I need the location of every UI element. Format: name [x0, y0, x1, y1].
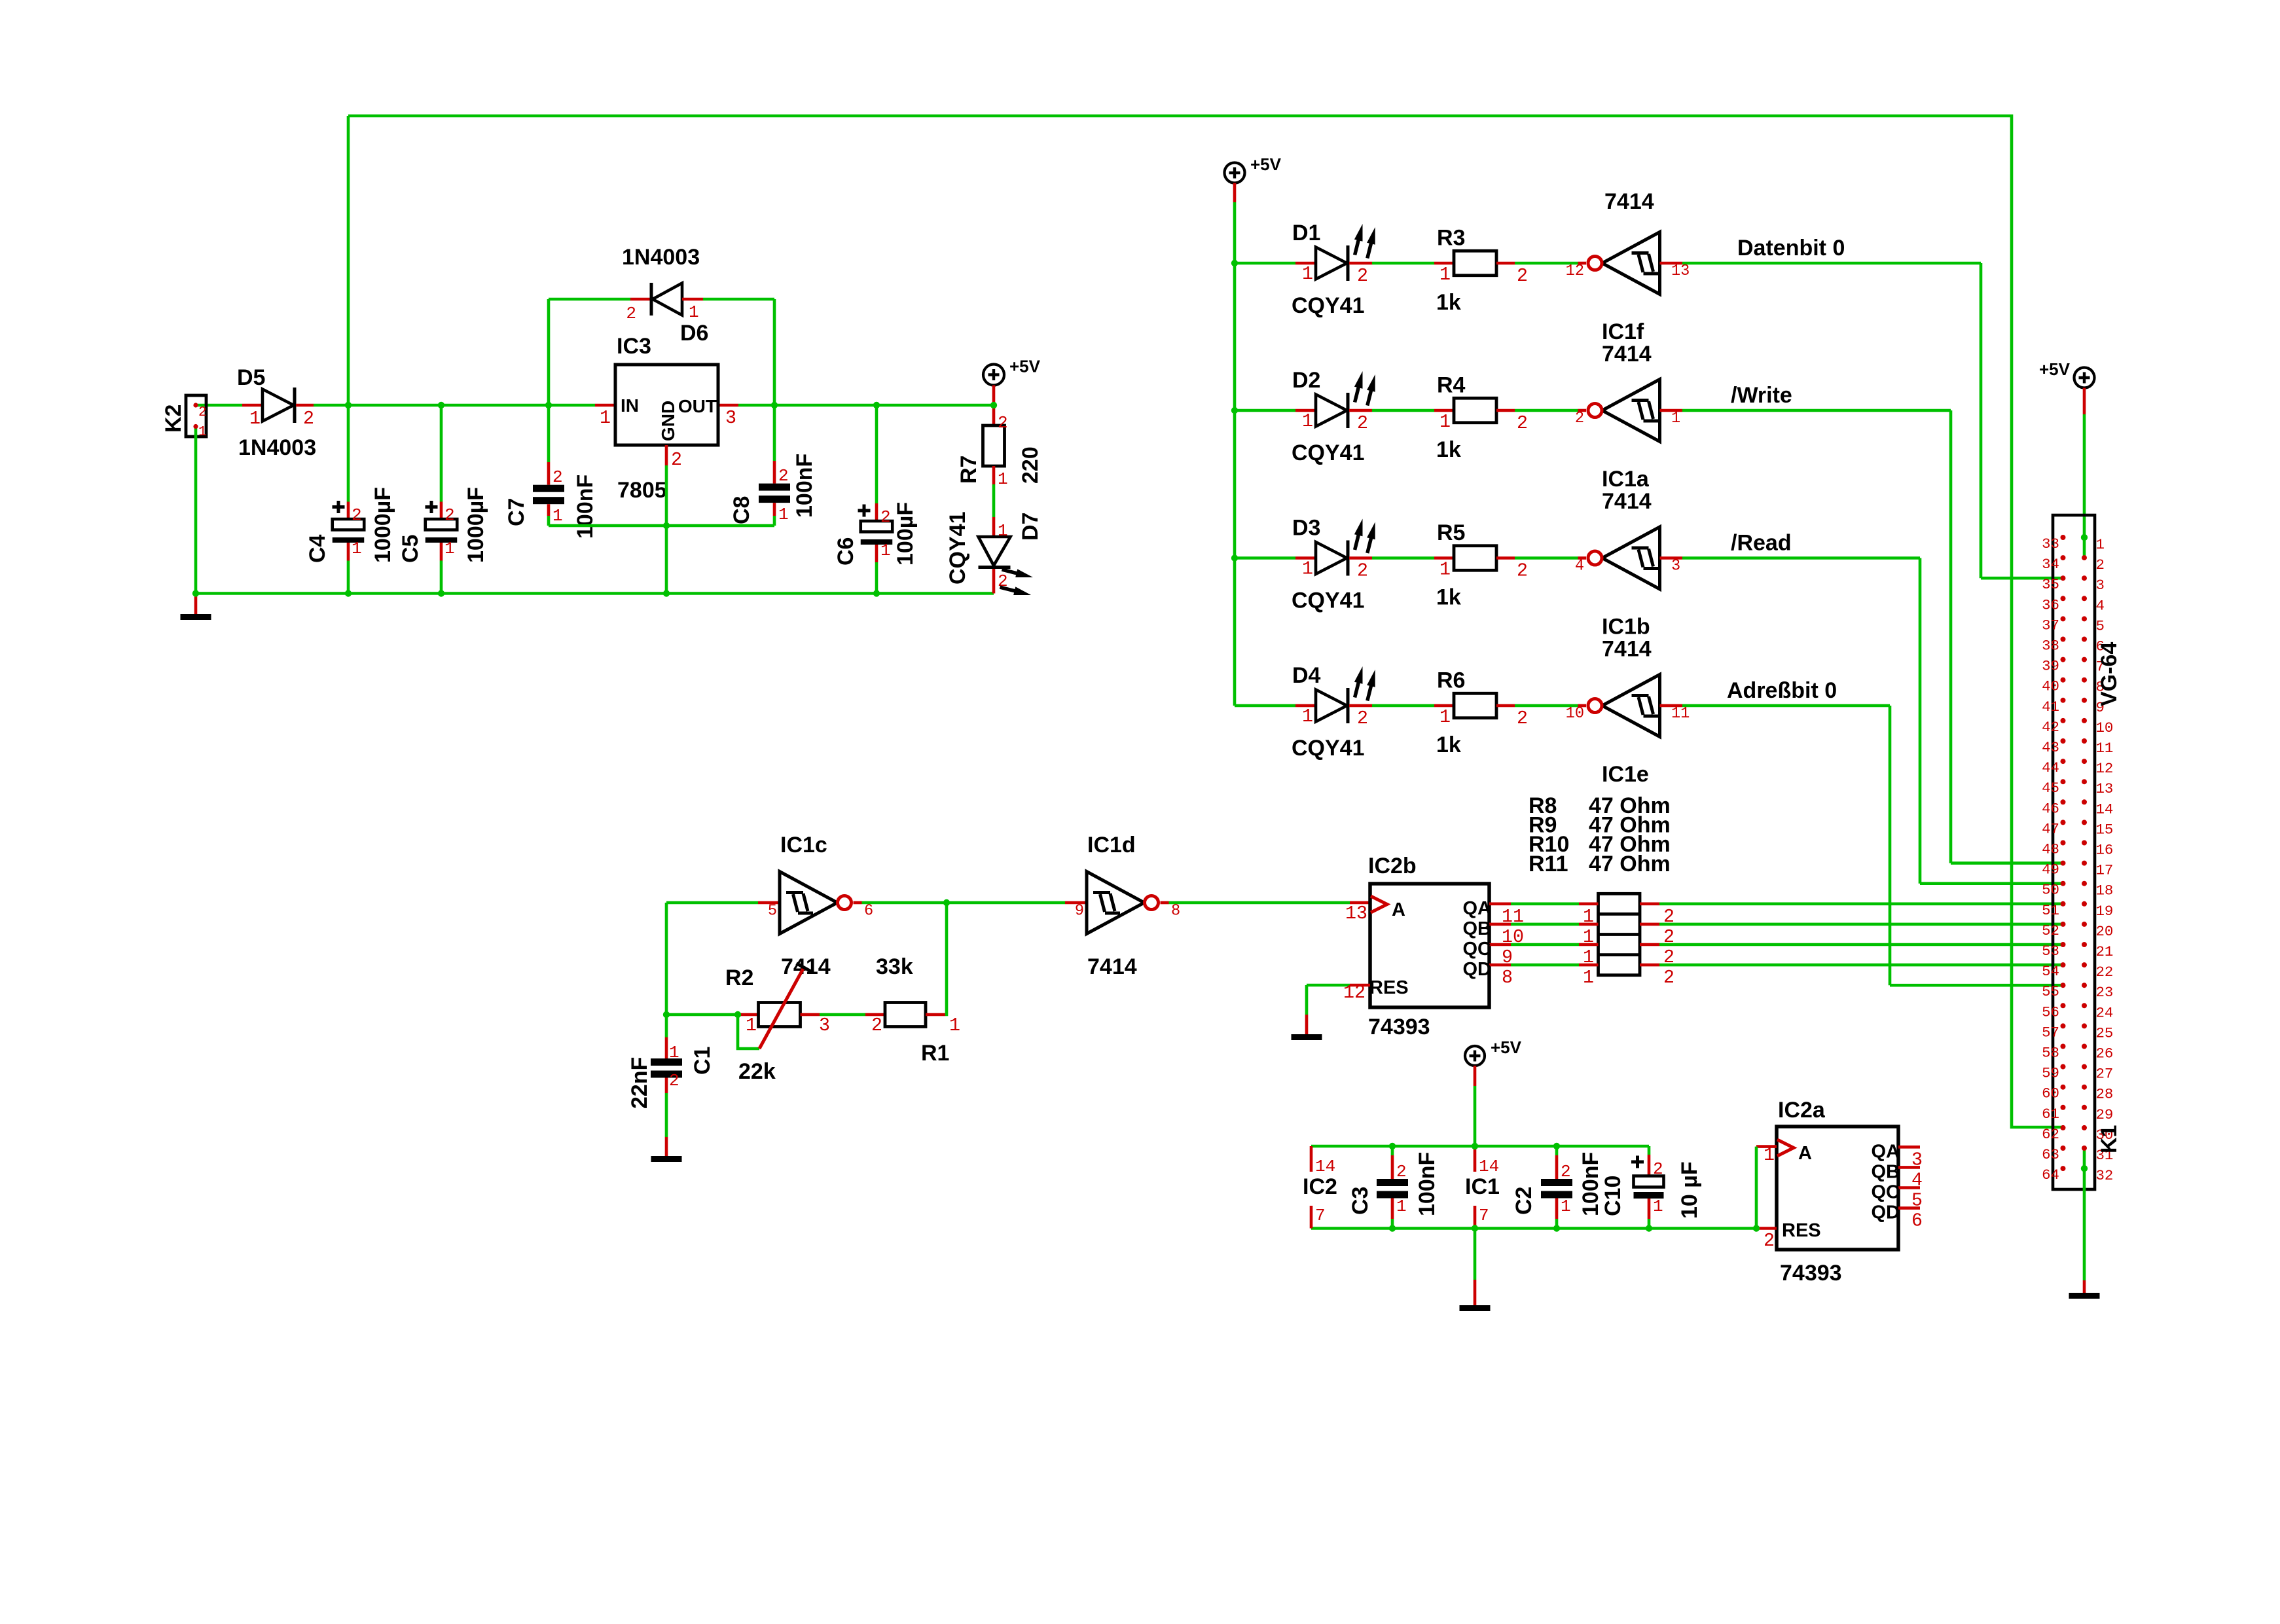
- svg-text:22nF: 22nF: [627, 1057, 652, 1109]
- svg-text:11: 11: [1671, 705, 1690, 723]
- svg-text:50: 50: [2042, 882, 2059, 899]
- svg-text:19: 19: [2096, 903, 2114, 920]
- svg-text:10: 10: [2096, 719, 2114, 736]
- svg-text:100nF: 100nF: [573, 475, 598, 539]
- svg-text:D3: D3: [1292, 516, 1320, 541]
- svg-text:1: 1: [998, 469, 1008, 489]
- svg-text:1: 1: [2096, 536, 2105, 553]
- svg-text:1: 1: [1583, 967, 1594, 988]
- svg-text:1: 1: [1561, 1197, 1571, 1216]
- svg-text:R11: R11: [1529, 852, 1568, 876]
- svg-text:1: 1: [1302, 559, 1313, 580]
- svg-text:74393: 74393: [1368, 1015, 1430, 1039]
- svg-text:C5: C5: [398, 535, 423, 563]
- svg-text:R3: R3: [1437, 226, 1465, 251]
- svg-text:+5V: +5V: [1009, 357, 1041, 376]
- svg-text:QB: QB: [1872, 1161, 1900, 1182]
- svg-text:QA: QA: [1463, 898, 1492, 919]
- svg-text:3: 3: [725, 408, 736, 429]
- svg-text:42: 42: [2042, 719, 2059, 736]
- svg-text:1: 1: [880, 541, 891, 560]
- svg-text:1: 1: [444, 539, 455, 558]
- svg-text:1: 1: [1439, 264, 1451, 285]
- svg-text:2: 2: [1517, 708, 1528, 729]
- svg-text:R1: R1: [921, 1041, 949, 1066]
- svg-text:CQY41: CQY41: [945, 512, 970, 585]
- svg-text:34: 34: [2042, 556, 2059, 573]
- svg-text:2: 2: [669, 1071, 679, 1091]
- svg-text:1k: 1k: [1436, 437, 1461, 462]
- svg-text:100µF: 100µF: [893, 502, 918, 566]
- svg-text:QD: QD: [1872, 1202, 1900, 1223]
- svg-text:R4: R4: [1437, 373, 1466, 398]
- svg-text:IC1a: IC1a: [1602, 467, 1650, 492]
- svg-text:R5: R5: [1437, 520, 1465, 545]
- svg-text:11: 11: [2096, 740, 2114, 757]
- svg-text:1: 1: [552, 506, 563, 526]
- svg-text:1: 1: [352, 539, 362, 558]
- svg-text:IC2: IC2: [1303, 1174, 1337, 1199]
- svg-text:1: 1: [1439, 707, 1451, 728]
- svg-text:K2: K2: [161, 405, 186, 433]
- svg-text:74393: 74393: [1780, 1261, 1842, 1286]
- svg-text:7805: 7805: [617, 478, 667, 503]
- svg-text:37: 37: [2042, 617, 2059, 634]
- svg-text:+5V: +5V: [1491, 1038, 1522, 1057]
- svg-text:12: 12: [2096, 760, 2114, 777]
- svg-text:IC1c: IC1c: [780, 833, 827, 857]
- svg-text:2: 2: [1653, 1159, 1663, 1179]
- svg-text:IC2a: IC2a: [1778, 1098, 1826, 1123]
- svg-text:1: 1: [746, 1015, 757, 1036]
- svg-text:3: 3: [2096, 577, 2105, 594]
- svg-text:IC1e: IC1e: [1602, 762, 1649, 787]
- svg-text:1: 1: [689, 302, 699, 322]
- svg-text:C7: C7: [504, 498, 529, 526]
- svg-text:22k: 22k: [738, 1059, 776, 1084]
- svg-text:1: 1: [669, 1043, 679, 1062]
- svg-text:1k: 1k: [1436, 585, 1461, 610]
- svg-text:14: 14: [2096, 801, 2114, 818]
- svg-text:2: 2: [778, 466, 789, 486]
- svg-text:A: A: [1392, 899, 1405, 920]
- svg-text:64: 64: [2042, 1166, 2059, 1183]
- svg-text:60: 60: [2042, 1085, 2059, 1102]
- svg-text:59: 59: [2042, 1065, 2059, 1082]
- svg-text:/Read: /Read: [1731, 531, 1792, 556]
- svg-text:Adreßbit 0: Adreßbit 0: [1727, 678, 1837, 703]
- svg-text:48: 48: [2042, 841, 2059, 858]
- svg-text:7414: 7414: [1604, 189, 1654, 214]
- svg-text:1: 1: [1764, 1145, 1775, 1166]
- svg-text:R7: R7: [956, 456, 981, 484]
- svg-text:4: 4: [2096, 597, 2105, 614]
- svg-text:62: 62: [2042, 1126, 2059, 1143]
- svg-text:41: 41: [2042, 698, 2059, 715]
- svg-text:53: 53: [2042, 943, 2059, 960]
- svg-text:3: 3: [819, 1015, 830, 1036]
- svg-text:7414: 7414: [1602, 342, 1652, 367]
- svg-text:D5: D5: [237, 365, 265, 390]
- svg-text:35: 35: [2042, 576, 2059, 593]
- svg-text:A: A: [1798, 1143, 1812, 1164]
- svg-text:58: 58: [2042, 1045, 2059, 1062]
- svg-text:2: 2: [1663, 967, 1674, 988]
- svg-text:7414: 7414: [1087, 954, 1137, 979]
- svg-text:38: 38: [2042, 638, 2059, 655]
- svg-text:7: 7: [1479, 1206, 1489, 1225]
- svg-text:49: 49: [2042, 861, 2059, 878]
- svg-text:1: 1: [1439, 560, 1451, 581]
- svg-text:2: 2: [671, 450, 682, 471]
- svg-text:Datenbit 0: Datenbit 0: [1737, 236, 1845, 261]
- svg-text:CQY41: CQY41: [1292, 736, 1365, 761]
- svg-text:14: 14: [1479, 1157, 1499, 1176]
- svg-text:27: 27: [2096, 1066, 2114, 1083]
- svg-text:17: 17: [2096, 862, 2114, 879]
- svg-text:220: 220: [1018, 446, 1043, 484]
- svg-text:2: 2: [303, 408, 314, 429]
- svg-text:IN: IN: [621, 395, 639, 416]
- svg-text:IC3: IC3: [617, 334, 651, 359]
- svg-text:18: 18: [2096, 882, 2114, 899]
- svg-text:1: 1: [1671, 410, 1680, 427]
- svg-text:C4: C4: [305, 534, 330, 563]
- svg-text:33k: 33k: [876, 954, 913, 979]
- svg-text:C8: C8: [729, 496, 754, 524]
- svg-text:100nF: 100nF: [1578, 1152, 1603, 1216]
- svg-text:33: 33: [2042, 535, 2059, 552]
- svg-text:10 µF: 10 µF: [1677, 1161, 1702, 1219]
- svg-text:+5V: +5V: [1250, 154, 1282, 174]
- svg-text:22: 22: [2096, 964, 2114, 981]
- svg-text:2: 2: [198, 405, 207, 420]
- svg-text:2: 2: [1517, 561, 1528, 582]
- svg-text:1000µF: 1000µF: [463, 487, 488, 563]
- svg-text:IC2b: IC2b: [1368, 854, 1417, 878]
- svg-text:46: 46: [2042, 800, 2059, 817]
- svg-text:OUT: OUT: [678, 396, 717, 416]
- svg-text:D2: D2: [1292, 368, 1320, 393]
- svg-text:47: 47: [2042, 820, 2059, 837]
- svg-text:1: 1: [1302, 706, 1313, 727]
- svg-text:40: 40: [2042, 678, 2059, 695]
- svg-text:56: 56: [2042, 1003, 2059, 1020]
- svg-text:R2: R2: [725, 965, 753, 990]
- svg-text:CQY41: CQY41: [1292, 293, 1365, 318]
- svg-text:44: 44: [2042, 759, 2059, 776]
- svg-text:52: 52: [2042, 922, 2059, 939]
- svg-text:23: 23: [2096, 984, 2114, 1001]
- svg-text:51: 51: [2042, 902, 2059, 919]
- svg-text:1N4003: 1N4003: [622, 245, 700, 270]
- svg-text:45: 45: [2042, 780, 2059, 797]
- svg-text:1: 1: [998, 521, 1008, 541]
- svg-text:GND: GND: [658, 401, 678, 441]
- svg-text:R6: R6: [1437, 668, 1465, 693]
- svg-text:20: 20: [2096, 923, 2114, 940]
- svg-text:2: 2: [1764, 1231, 1775, 1252]
- svg-text:2: 2: [1357, 413, 1368, 434]
- svg-text:57: 57: [2042, 1024, 2059, 1041]
- svg-text:7414: 7414: [1602, 637, 1652, 662]
- svg-text:6: 6: [864, 903, 873, 920]
- svg-text:12: 12: [1343, 983, 1366, 1003]
- svg-text:14: 14: [1315, 1157, 1335, 1176]
- svg-text:43: 43: [2042, 739, 2059, 756]
- svg-text:IC1b: IC1b: [1602, 615, 1650, 640]
- svg-text:2: 2: [1561, 1162, 1571, 1182]
- svg-text:2: 2: [352, 505, 362, 525]
- svg-text:2: 2: [1575, 410, 1584, 427]
- svg-text:9: 9: [1075, 903, 1084, 920]
- svg-text:1: 1: [1302, 411, 1313, 432]
- svg-text:D7: D7: [1018, 513, 1043, 541]
- svg-text:1: 1: [1653, 1197, 1663, 1216]
- svg-text:15: 15: [2096, 821, 2114, 838]
- svg-text:QC: QC: [1463, 939, 1492, 960]
- svg-text:29: 29: [2096, 1106, 2114, 1123]
- svg-text:/Write: /Write: [1731, 383, 1792, 408]
- svg-text:1: 1: [198, 424, 207, 440]
- svg-text:2: 2: [1357, 561, 1368, 582]
- svg-text:QB: QB: [1463, 918, 1492, 939]
- svg-text:7414: 7414: [1602, 489, 1652, 514]
- svg-text:C10: C10: [1601, 1176, 1625, 1216]
- svg-text:2: 2: [1357, 708, 1368, 729]
- svg-text:21: 21: [2096, 943, 2114, 960]
- svg-text:QC: QC: [1872, 1182, 1900, 1203]
- svg-text:3: 3: [1671, 558, 1680, 575]
- svg-text:1k: 1k: [1436, 290, 1461, 315]
- svg-text:47 Ohm: 47 Ohm: [1589, 852, 1671, 876]
- svg-text:63: 63: [2042, 1146, 2059, 1163]
- svg-text:K1: K1: [2097, 1125, 2122, 1153]
- svg-text:12: 12: [1566, 262, 1584, 280]
- svg-text:2: 2: [552, 467, 563, 487]
- svg-text:1k: 1k: [1436, 732, 1461, 757]
- svg-text:IC1f: IC1f: [1602, 319, 1644, 344]
- svg-text:1: 1: [1439, 412, 1451, 433]
- svg-text:IC1: IC1: [1465, 1174, 1500, 1199]
- svg-text:32: 32: [2096, 1167, 2114, 1184]
- svg-text:13: 13: [1671, 262, 1690, 280]
- svg-text:2: 2: [1517, 266, 1528, 287]
- svg-text:1: 1: [778, 505, 789, 524]
- svg-text:100nF: 100nF: [1415, 1152, 1439, 1216]
- svg-text:QA: QA: [1872, 1141, 1900, 1162]
- svg-text:C1: C1: [690, 1047, 715, 1075]
- svg-text:2: 2: [1357, 266, 1368, 287]
- svg-text:C3: C3: [1348, 1187, 1373, 1215]
- svg-text:1: 1: [1302, 264, 1313, 285]
- svg-text:CQY41: CQY41: [1292, 441, 1365, 465]
- svg-text:VG-64: VG-64: [2097, 642, 2122, 706]
- svg-text:D4: D4: [1292, 663, 1321, 688]
- svg-text:25: 25: [2096, 1024, 2114, 1041]
- svg-text:8: 8: [1171, 903, 1180, 920]
- svg-text:2: 2: [1517, 413, 1528, 434]
- svg-text:13: 13: [1345, 903, 1367, 924]
- svg-text:D6: D6: [680, 321, 708, 346]
- svg-text:C6: C6: [833, 537, 858, 566]
- svg-text:CQY41: CQY41: [1292, 588, 1365, 613]
- svg-text:5: 5: [768, 903, 777, 920]
- svg-text:QD: QD: [1463, 959, 1492, 980]
- svg-text:2: 2: [998, 413, 1008, 433]
- svg-text:13: 13: [2096, 780, 2114, 797]
- svg-text:55: 55: [2042, 983, 2059, 1000]
- svg-text:5: 5: [2096, 617, 2105, 634]
- svg-text:54: 54: [2042, 963, 2059, 980]
- svg-text:1: 1: [949, 1015, 960, 1036]
- svg-text:6: 6: [1911, 1211, 1923, 1232]
- svg-text:2: 2: [1396, 1162, 1407, 1182]
- svg-text:1: 1: [1396, 1197, 1407, 1216]
- svg-text:+5V: +5V: [2039, 359, 2071, 379]
- svg-text:100nF: 100nF: [792, 454, 817, 518]
- svg-text:IC1d: IC1d: [1087, 833, 1136, 857]
- svg-text:2: 2: [880, 507, 891, 527]
- svg-text:RES: RES: [1369, 977, 1409, 998]
- svg-text:2: 2: [871, 1015, 882, 1036]
- svg-text:16: 16: [2096, 842, 2114, 859]
- svg-text:D1: D1: [1292, 221, 1320, 245]
- svg-text:2: 2: [2096, 556, 2105, 573]
- svg-text:2: 2: [626, 304, 636, 323]
- svg-text:4: 4: [1575, 558, 1584, 575]
- svg-text:1N4003: 1N4003: [238, 435, 316, 460]
- svg-text:8: 8: [1502, 967, 1513, 988]
- svg-text:1000µF: 1000µF: [371, 487, 395, 563]
- svg-text:C2: C2: [1511, 1187, 1536, 1215]
- svg-text:24: 24: [2096, 1004, 2114, 1021]
- svg-text:7: 7: [1315, 1206, 1326, 1225]
- svg-text:1: 1: [600, 408, 611, 429]
- svg-text:28: 28: [2096, 1086, 2114, 1103]
- svg-text:39: 39: [2042, 658, 2059, 675]
- svg-text:10: 10: [1566, 705, 1584, 723]
- svg-text:2: 2: [444, 505, 455, 525]
- svg-text:61: 61: [2042, 1106, 2059, 1123]
- svg-text:1: 1: [249, 408, 261, 429]
- svg-text:36: 36: [2042, 596, 2059, 613]
- svg-text:26: 26: [2096, 1045, 2114, 1062]
- svg-text:RES: RES: [1782, 1220, 1821, 1241]
